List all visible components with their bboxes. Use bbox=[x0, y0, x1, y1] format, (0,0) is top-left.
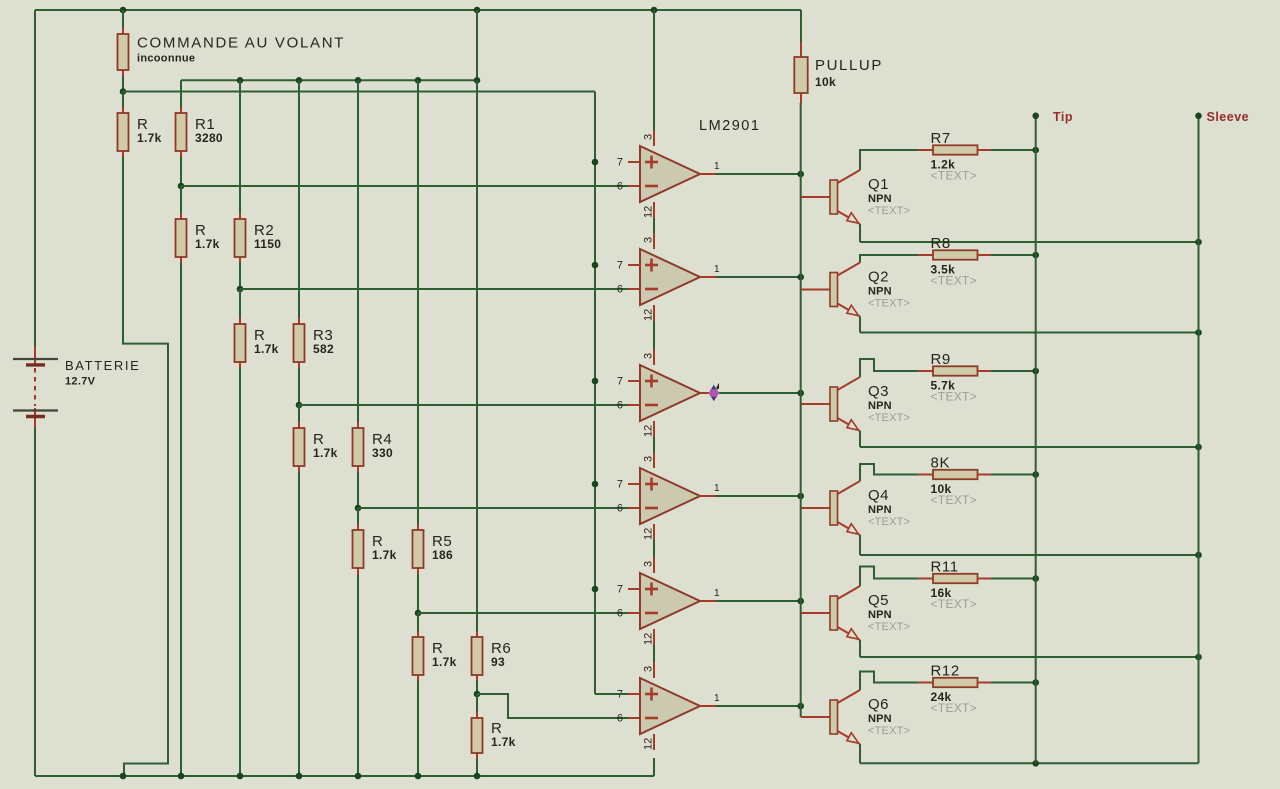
pin 7 + input stub U1:B bbox=[617, 260, 640, 272]
pin 7 + input stub U1:E bbox=[617, 584, 640, 596]
svg-text:12: 12 bbox=[643, 425, 655, 437]
svg-text:PULLUP: PULLUP bbox=[815, 57, 883, 74]
svg-text:NPN: NPN bbox=[868, 713, 892, 725]
pin 3 wire U1:E bbox=[643, 540, 655, 573]
svg-text:6: 6 bbox=[617, 713, 623, 725]
wire R7 to Tip column bbox=[991, 149, 1036, 151]
wire Q1 emitter to Sleeve column bbox=[860, 241, 1199, 243]
wire divider leg x=181 to ground rail bbox=[180, 263, 182, 776]
node Sleeve at Q5 emitter bbox=[1195, 654, 1202, 661]
wire tap 6 to comparator U1:F - input (jog) bbox=[477, 694, 628, 718]
wire tap 3 to comparator U1:C - input bbox=[299, 404, 628, 406]
wire Q2 collector to R8 bbox=[860, 255, 918, 263]
pin 7 + input stub U1:F bbox=[617, 689, 640, 701]
svg-text:<TEXT>: <TEXT> bbox=[868, 621, 910, 633]
node tap 4 bbox=[355, 505, 362, 512]
label Q2 NPN bbox=[868, 269, 910, 310]
resistor R 1.7k (row 7, under tap 6) bbox=[472, 694, 516, 776]
op-amp U1:F comparator bbox=[640, 678, 700, 734]
node sense bus at U1:A + input bbox=[592, 159, 599, 166]
svg-text:1.7k: 1.7k bbox=[195, 237, 220, 251]
pin 3 wire U1:F bbox=[643, 645, 655, 678]
svg-text:incoonnue: incoonnue bbox=[137, 53, 195, 65]
resistor R9 5.7k bbox=[918, 351, 991, 404]
label Q6 NPN bbox=[868, 696, 910, 737]
svg-text:<TEXT>: <TEXT> bbox=[931, 274, 977, 288]
wire left border battery feed bbox=[34, 10, 36, 346]
svg-text:Q6: Q6 bbox=[868, 696, 889, 713]
wire V+ ladder bus bbox=[181, 79, 477, 81]
svg-text:Q4: Q4 bbox=[868, 487, 889, 504]
resistor R11 16k bbox=[918, 559, 991, 612]
svg-text:NPN: NPN bbox=[868, 400, 892, 412]
resistor R4 330 bbox=[353, 80, 393, 508]
node Sleeve at Q3 emitter bbox=[1195, 444, 1202, 451]
pin 6 - input stub U1:B bbox=[617, 284, 623, 296]
wire U1:F pin12 to ground rail bbox=[653, 758, 655, 776]
label R 1.7k (x=418) bbox=[432, 640, 457, 669]
pin 6 - input stub U1:A bbox=[617, 181, 623, 193]
node tap 2 bbox=[237, 286, 244, 293]
svg-text:7: 7 bbox=[617, 157, 623, 169]
svg-text:R9: R9 bbox=[931, 351, 951, 368]
pin 7 + input stub U1:A bbox=[617, 157, 640, 169]
wire tap 4 to comparator U1:D - input bbox=[358, 507, 628, 509]
transistor Q4 NPN bbox=[801, 481, 860, 535]
node ground rail x=358 bbox=[355, 773, 362, 780]
pin 12 wire U1:F bbox=[643, 734, 655, 750]
wire R11 to Tip column bbox=[991, 578, 1036, 580]
resistor PULLUP 10k bbox=[794, 10, 883, 103]
svg-text:R11: R11 bbox=[931, 559, 959, 576]
wire Q4 collector to 8K bbox=[860, 464, 918, 481]
svg-text:93: 93 bbox=[491, 655, 505, 669]
pin 1 output wire U1:C with probe bbox=[700, 392, 801, 394]
svg-text:1.7k: 1.7k bbox=[137, 131, 162, 145]
wire output bus vertical bbox=[800, 103, 802, 717]
node Sleeve at Q1 emitter bbox=[1195, 239, 1202, 246]
svg-text:3: 3 bbox=[643, 561, 655, 567]
svg-text:Q3: Q3 bbox=[868, 383, 889, 400]
wire R8 to Tip column bbox=[991, 254, 1036, 256]
svg-text:3280: 3280 bbox=[195, 131, 223, 145]
label R 1.7k (x=123) bbox=[137, 116, 162, 145]
op-amp U1:E comparator bbox=[640, 573, 700, 629]
pin 6 - input stub U1:F bbox=[617, 713, 623, 725]
pin 7 + input stub U1:D bbox=[617, 479, 640, 491]
wire sense bus end to U1:F + input bbox=[595, 693, 628, 695]
svg-text:1.7k: 1.7k bbox=[313, 446, 338, 460]
wire divider leg x=299 to ground rail bbox=[298, 472, 300, 776]
pin 1 output wire U1:F bbox=[700, 693, 801, 706]
node Tip at R9 bbox=[1032, 368, 1039, 375]
wire Q4 emitter down bbox=[859, 535, 861, 555]
wire tap 1 to comparator U1:A - input bbox=[181, 185, 628, 187]
wire Q4 emitter to Sleeve column bbox=[860, 554, 1199, 556]
wire Q5 emitter down bbox=[859, 640, 861, 657]
wire 8K to Tip column bbox=[991, 474, 1036, 476]
wire ground rail bottom bbox=[35, 775, 654, 777]
svg-text:12: 12 bbox=[643, 738, 655, 750]
label Q5 NPN bbox=[868, 592, 910, 633]
transistor Q2 NPN bbox=[801, 263, 860, 317]
svg-text:1: 1 bbox=[714, 264, 720, 275]
wire R9 to Tip column bbox=[991, 370, 1036, 372]
svg-text:7: 7 bbox=[617, 376, 623, 388]
wire Q5 collector to R11 bbox=[860, 567, 918, 587]
wire Q3 collector to R9 bbox=[860, 359, 918, 377]
node top bus at comparator supply column bbox=[651, 7, 658, 14]
svg-text:Q2: Q2 bbox=[868, 269, 889, 286]
transistor Q1 NPN bbox=[801, 170, 860, 224]
node ground rail x=477 bbox=[474, 773, 481, 780]
wire ladder bus down to R1 bbox=[180, 80, 182, 107]
node sense bus at U1:D + input bbox=[592, 481, 599, 488]
resistor R 1.7k (divider lower leg, column x=240) bbox=[235, 289, 246, 368]
pin 1 output wire U1:B bbox=[700, 264, 801, 277]
pin 3 wire U1:D bbox=[643, 437, 655, 468]
node tap 1 bbox=[178, 183, 185, 190]
svg-text:3: 3 bbox=[643, 666, 655, 672]
svg-text:8K: 8K bbox=[931, 455, 951, 472]
label Q3 NPN bbox=[868, 383, 910, 424]
node Tip bottom junction bbox=[1032, 760, 1039, 767]
svg-text:Q1: Q1 bbox=[868, 176, 889, 193]
pin 3 wire U1:B bbox=[643, 218, 655, 249]
svg-text:1.7k: 1.7k bbox=[491, 735, 516, 749]
label R 1.7k (x=299) bbox=[313, 431, 338, 460]
svg-text:R8: R8 bbox=[931, 235, 951, 252]
wire Q6 emitter to Sleeve corner bbox=[860, 762, 1199, 764]
resistor R5 186 bbox=[413, 80, 453, 613]
svg-text:R7: R7 bbox=[931, 130, 951, 147]
pin 1 output wire U1:D bbox=[700, 483, 801, 496]
wire tap 5 to comparator U1:E - input bbox=[418, 612, 628, 614]
node ground rail x=240 bbox=[237, 773, 244, 780]
svg-text:<TEXT>: <TEXT> bbox=[868, 725, 910, 737]
label Q4 NPN bbox=[868, 487, 910, 528]
svg-text:330: 330 bbox=[372, 446, 393, 460]
resistor R 1.7k (divider lower leg, column x=418) bbox=[413, 613, 424, 681]
transistor Q5 NPN bbox=[801, 586, 860, 640]
wire R row1 bottom to ground rail with jog bbox=[123, 157, 168, 776]
resistor R 1.7k (divider lower leg, column x=181) bbox=[176, 186, 187, 263]
node output bus at U1:B bbox=[797, 274, 804, 281]
pin 3 wire U1:C bbox=[643, 321, 655, 365]
resistor R3 582 bbox=[294, 80, 334, 405]
node output bus at U1:C bbox=[797, 390, 804, 397]
op-amp U1:D comparator bbox=[640, 468, 700, 524]
svg-text:1.7k: 1.7k bbox=[254, 342, 279, 356]
node Tip at R12 bbox=[1032, 679, 1039, 686]
svg-text:<TEXT>: <TEXT> bbox=[931, 169, 977, 183]
svg-text:12: 12 bbox=[643, 633, 655, 645]
svg-text:NPN: NPN bbox=[868, 286, 892, 298]
svg-text:<TEXT>: <TEXT> bbox=[931, 390, 977, 404]
label R 1.7k (x=240) bbox=[254, 327, 279, 356]
node sense bus at U1:B + input bbox=[592, 262, 599, 269]
pin 12 wire U1:A bbox=[643, 202, 655, 218]
svg-text:1150: 1150 bbox=[254, 237, 281, 251]
svg-text:7: 7 bbox=[617, 260, 623, 272]
svg-text:7: 7 bbox=[617, 584, 623, 596]
pin 6 - input stub U1:E bbox=[617, 608, 623, 620]
svg-text:<TEXT>: <TEXT> bbox=[868, 205, 910, 217]
svg-text:<TEXT>: <TEXT> bbox=[868, 412, 910, 424]
node ladder bus R5 column bbox=[415, 77, 422, 84]
node Tip at R8 bbox=[1032, 252, 1039, 259]
node output bus at U1:E bbox=[797, 598, 804, 605]
svg-text:6: 6 bbox=[617, 608, 623, 620]
resistor 8K 10k bbox=[918, 455, 991, 508]
pin 6 - input stub U1:D bbox=[617, 503, 623, 515]
node output bus at U1:D bbox=[797, 493, 804, 500]
voltage probe marker bbox=[708, 383, 719, 402]
wire divider leg x=418 to ground rail bbox=[417, 681, 419, 776]
pin 12 wire U1:E bbox=[643, 629, 655, 645]
svg-text:12.7V: 12.7V bbox=[65, 376, 96, 388]
node ladder bus R2 column bbox=[237, 77, 244, 84]
resistor R7 1.2k bbox=[918, 130, 991, 183]
resistor R 1.7k (divider lower leg, column x=299) bbox=[294, 405, 305, 472]
node ground rail x=181 bbox=[178, 773, 185, 780]
resistor R 1.7k (divider lower leg, column x=358) bbox=[353, 508, 364, 574]
svg-text:<TEXT>: <TEXT> bbox=[868, 516, 910, 528]
node Tip at R11 bbox=[1032, 575, 1039, 582]
resistor R6 93 bbox=[472, 80, 512, 694]
svg-text:3: 3 bbox=[643, 353, 655, 359]
pin 1 output wire U1:A bbox=[700, 161, 801, 174]
pin 1 output wire U1:E bbox=[700, 588, 801, 601]
op-amp U1:C comparator bbox=[640, 365, 700, 421]
svg-text:COMMANDE AU VOLANT: COMMANDE AU VOLANT bbox=[137, 35, 345, 52]
svg-text:<TEXT>: <TEXT> bbox=[931, 597, 977, 611]
svg-text:7: 7 bbox=[617, 479, 623, 491]
wire tap 2 to comparator U1:B - input bbox=[240, 288, 628, 290]
node ground rail x=418 bbox=[415, 773, 422, 780]
wire Q1 emitter down bbox=[859, 224, 861, 242]
wire V+ top bus bbox=[35, 9, 801, 11]
node ladder bus R4 column bbox=[355, 77, 362, 84]
svg-text:10k: 10k bbox=[815, 75, 836, 89]
svg-text:1: 1 bbox=[714, 161, 720, 172]
node tap 3 bbox=[296, 402, 303, 409]
wire riser x477 from top bus bbox=[476, 10, 478, 80]
node Sleeve at Q4 emitter bbox=[1195, 552, 1202, 559]
pin 7 + input stub U1:C bbox=[617, 376, 640, 388]
svg-text:<TEXT>: <TEXT> bbox=[868, 298, 910, 310]
svg-text:6: 6 bbox=[617, 181, 623, 193]
svg-text:R12: R12 bbox=[931, 663, 960, 680]
pin 12 wire U1:D bbox=[643, 524, 655, 540]
resistor COMMANDE AU VOLANT (incoonnue) bbox=[118, 10, 346, 92]
resistor R2 1150 bbox=[235, 80, 282, 289]
terminal Tip bbox=[1032, 110, 1073, 763]
node tap 5 bbox=[415, 610, 422, 617]
wire Q2 emitter down bbox=[859, 317, 861, 333]
terminal Sleeve bbox=[1195, 110, 1249, 763]
node top bus at commande resistor bbox=[120, 7, 127, 14]
label R 1.7k (x=358) bbox=[372, 533, 397, 562]
svg-text:Tip: Tip bbox=[1053, 110, 1073, 124]
node ground rail x=123 bbox=[120, 773, 127, 780]
op-amp U1:B comparator bbox=[640, 249, 700, 305]
node sense bus at U1:C + input bbox=[592, 378, 599, 385]
svg-text:186: 186 bbox=[432, 548, 453, 562]
transistor Q6 NPN bbox=[801, 690, 860, 744]
transistor Q3 NPN bbox=[801, 377, 860, 431]
resistor R12 24k bbox=[918, 663, 991, 716]
node sense bus at U1:E + input bbox=[592, 586, 599, 593]
node output bus at U1:A bbox=[797, 171, 804, 178]
svg-text:3: 3 bbox=[643, 456, 655, 462]
pin 3 wire U1:A bbox=[643, 10, 655, 146]
svg-text:582: 582 bbox=[313, 342, 334, 356]
pin 12 wire U1:B bbox=[643, 305, 655, 321]
wire divider leg x=358 to ground rail bbox=[357, 574, 359, 776]
op-amp U1:A comparator bbox=[640, 146, 700, 202]
wire R12 to Tip column bbox=[991, 682, 1036, 684]
wire sense bus vertical to + inputs bbox=[594, 92, 596, 695]
node output bus at U1:F bbox=[797, 703, 804, 710]
battery BATTERIE 12.7V bbox=[13, 346, 140, 428]
wire Q3 emitter to Sleeve column bbox=[860, 446, 1199, 448]
svg-text:6: 6 bbox=[617, 284, 623, 296]
svg-text:1: 1 bbox=[714, 483, 720, 494]
wire Q3 emitter down bbox=[859, 431, 861, 447]
resistor R 1.7k (divider lower leg, column x=123) bbox=[118, 92, 129, 158]
node Sleeve at Q2 emitter bbox=[1195, 329, 1202, 336]
node ladder bus R3 column bbox=[296, 77, 303, 84]
svg-text:3: 3 bbox=[643, 134, 655, 140]
node Tip at 8K bbox=[1032, 471, 1039, 478]
node ladder bus R6 column bbox=[474, 77, 481, 84]
resistor R1 3280 bbox=[176, 80, 223, 186]
svg-text:<TEXT>: <TEXT> bbox=[931, 493, 977, 507]
svg-text:<TEXT>: <TEXT> bbox=[931, 701, 977, 715]
svg-text:LM2901: LM2901 bbox=[699, 118, 760, 134]
node tap 6 bbox=[474, 691, 481, 698]
svg-text:NPN: NPN bbox=[868, 193, 892, 205]
svg-text:12: 12 bbox=[643, 206, 655, 218]
svg-text:12: 12 bbox=[643, 309, 655, 321]
label R 1.7k (x=181) bbox=[195, 222, 220, 251]
svg-text:NPN: NPN bbox=[868, 609, 892, 621]
pin 6 - input stub U1:C bbox=[617, 400, 623, 412]
wire sense bus horizontal to comparators bbox=[123, 91, 595, 93]
wire Q5 emitter to Sleeve column bbox=[860, 656, 1199, 658]
pin 12 wire U1:C bbox=[643, 421, 655, 437]
resistor R8 3.5k bbox=[918, 235, 991, 288]
svg-text:6: 6 bbox=[617, 503, 623, 515]
node ground rail x=299 bbox=[296, 773, 303, 780]
svg-text:Q5: Q5 bbox=[868, 592, 889, 609]
wire Q1 collector to R7 bbox=[860, 150, 918, 170]
node Tip at R7 bbox=[1032, 147, 1039, 154]
svg-text:6: 6 bbox=[617, 400, 623, 412]
svg-text:1: 1 bbox=[714, 588, 720, 599]
wire Q6 emitter down bbox=[859, 744, 861, 763]
svg-text:NPN: NPN bbox=[868, 504, 892, 516]
wire battery negative to ground rail bbox=[34, 428, 36, 776]
wire Q2 emitter to Sleeve column bbox=[860, 332, 1199, 334]
svg-text:Sleeve: Sleeve bbox=[1207, 110, 1250, 124]
node A commande/ladder junction bbox=[120, 88, 127, 95]
wire divider leg x=240 to ground rail bbox=[239, 368, 241, 776]
svg-text:1: 1 bbox=[714, 693, 720, 704]
svg-text:1.7k: 1.7k bbox=[432, 655, 457, 669]
wire Q6 collector to R12 bbox=[860, 672, 918, 691]
svg-text:1.7k: 1.7k bbox=[372, 548, 397, 562]
svg-text:BATTERIE: BATTERIE bbox=[65, 358, 140, 373]
svg-text:12: 12 bbox=[643, 528, 655, 540]
node top bus at x477 riser bbox=[474, 7, 481, 14]
svg-text:3: 3 bbox=[643, 237, 655, 243]
label Q1 NPN bbox=[868, 176, 910, 217]
